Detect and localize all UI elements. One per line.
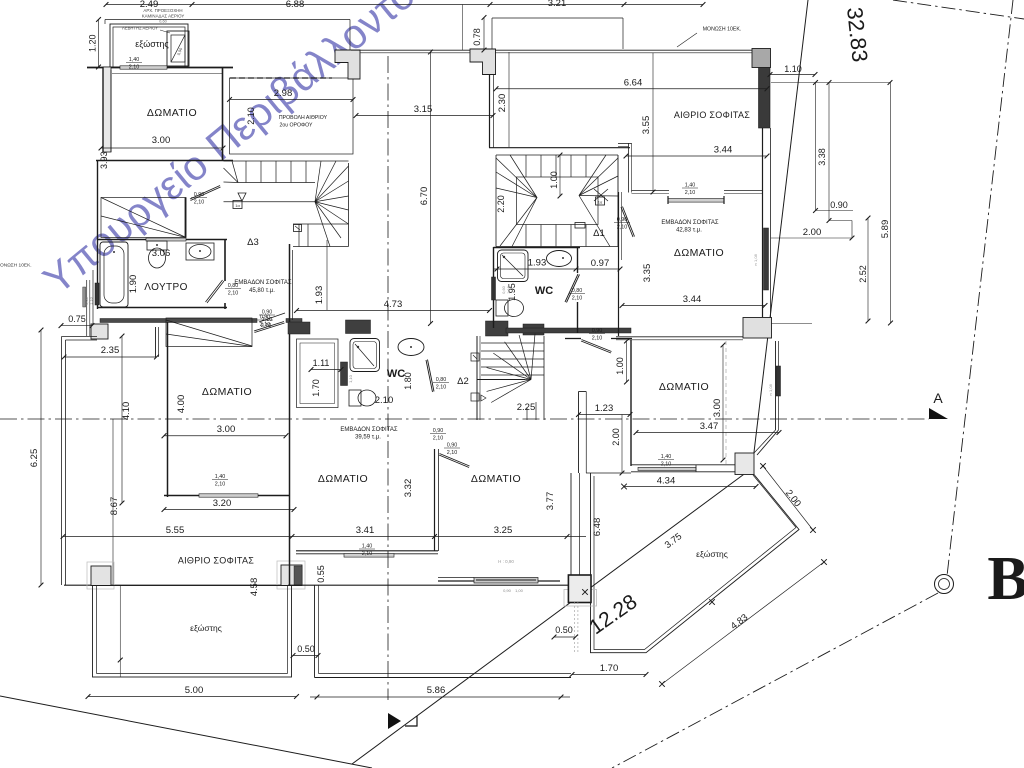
svg-text:2,10: 2,10	[436, 385, 447, 391]
dim 6.25	[40, 330, 42, 585]
stair D2	[476, 336, 478, 420]
svg-text:5.86: 5.86	[427, 685, 446, 696]
west wing top edge	[62, 336, 98, 338]
room2 bottom wall	[164, 495, 290, 497]
svg-text:39,59 τ.μ.: 39,59 τ.μ.	[355, 435, 381, 441]
svg-text:1,40: 1,40	[215, 474, 226, 480]
svg-text:0,90: 0,90	[194, 192, 205, 198]
svg-text:2.35: 2.35	[101, 345, 120, 356]
svg-text:ΑΡΧ. ΠΡΟΕΞΟΧΗΗ: ΑΡΧ. ΠΡΟΕΞΟΧΗΗ	[143, 8, 182, 13]
svg-text:0.78: 0.78	[472, 28, 482, 46]
svg-text:2,10: 2,10	[572, 296, 583, 302]
wall bottom of room1	[96, 160, 233, 162]
dim 4.83 diagonal	[662, 562, 824, 684]
svg-text:1α: 1α	[598, 200, 603, 205]
sloped ceiling hatch	[101, 198, 186, 238]
ceiling break line room6	[725, 341, 727, 464]
svg-text:6.48: 6.48	[592, 518, 603, 537]
dim 3.47	[636, 432, 779, 434]
gray lines below column BR	[573, 602, 575, 652]
window room3	[344, 554, 394, 558]
svg-text:4.10: 4.10	[121, 402, 132, 421]
svg-text:0,60: 0,60	[502, 286, 506, 293]
svg-text:5.00: 5.00	[185, 685, 204, 696]
svg-text:6.64: 6.64	[624, 78, 643, 89]
dim 1.20 left	[98, 20, 100, 68]
dim 3.38	[815, 83, 817, 211]
dim 5.86	[310, 696, 570, 698]
dim 2.35	[64, 356, 157, 358]
svg-text:Δ2: Δ2	[457, 376, 469, 387]
svg-text:2ου ΟΡΟΦΟΥ: 2ου ΟΡΟΦΟΥ	[279, 123, 313, 129]
dim 3.44 lower	[622, 305, 765, 307]
terrace bottom-mid	[314, 585, 316, 678]
svg-text:Η : 0,90: Η : 0,90	[498, 559, 514, 564]
right dim step	[829, 220, 852, 222]
door wc2	[426, 360, 433, 392]
svg-text:3.41: 3.41	[356, 525, 375, 536]
window bar closet	[341, 362, 348, 386]
wall right of hatch	[185, 198, 187, 238]
dim 0.50 mid	[293, 655, 318, 657]
east window bar lower	[776, 366, 781, 396]
wall y585 left wing	[64, 584, 302, 586]
svg-text:0,90: 0,90	[592, 328, 603, 334]
svg-text:1,10: 1,10	[348, 374, 353, 383]
svg-text:2,10: 2,10	[685, 190, 696, 196]
dim 3.00 room2	[164, 435, 286, 437]
dim row 1.93/0.97	[493, 268, 620, 270]
site boundary line SW (solid, shallow)	[0, 696, 372, 768]
wall right bathroom	[224, 239, 226, 281]
dim 3.20	[164, 509, 294, 511]
svg-text:3.00: 3.00	[217, 424, 236, 435]
top wall right section	[495, 49, 753, 51]
svg-text:3.21: 3.21	[548, 0, 567, 9]
section line A-A	[0, 418, 929, 420]
svg-text:1.11: 1.11	[313, 358, 330, 368]
top wall mid-right block	[470, 49, 496, 75]
dim 1.70	[572, 674, 646, 676]
dim 2.98	[230, 99, 354, 101]
door swing lower-left	[259, 313, 285, 322]
thick wall y320 left	[100, 319, 257, 323]
window room2 bottom	[199, 494, 258, 497]
wc room walls	[494, 247, 581, 249]
svg-text:2.10: 2.10	[375, 395, 394, 406]
room2 left wall	[167, 322, 169, 497]
thick wall y320 right stub	[286, 319, 302, 323]
dim 3.44 upper	[626, 155, 767, 157]
window top bathroom	[146, 238, 186, 241]
svg-text:0.55: 0.55	[316, 565, 326, 583]
svg-text:1,40: 1,40	[661, 454, 672, 460]
stair D3	[224, 160, 349, 162]
svg-text:3.55: 3.55	[641, 116, 652, 135]
stair D1	[495, 155, 497, 247]
wall after window	[724, 190, 763, 192]
svg-text:1.23: 1.23	[595, 403, 614, 414]
svg-text:4.58: 4.58	[249, 578, 260, 597]
wall y585 mid	[288, 584, 571, 586]
svg-text:3.25: 3.25	[494, 525, 513, 536]
top-right roof box	[492, 17, 623, 19]
dim 2.52	[867, 218, 869, 321]
svg-text:2.25: 2.25	[517, 402, 536, 413]
toilet wc2	[349, 390, 361, 406]
balcony left wall	[578, 392, 580, 474]
svg-text:2,10: 2,10	[362, 551, 373, 557]
svg-text:3.47: 3.47	[700, 421, 719, 432]
roof projection outline	[105, 19, 350, 21]
window bar outer west wall	[83, 287, 86, 307]
svg-text:ΜΟΝΩΣΗ 10ΕΚ.: ΜΟΝΩΣΗ 10ΕΚ.	[703, 27, 742, 33]
svg-text:2.52: 2.52	[858, 265, 868, 283]
svg-text:2.00: 2.00	[803, 227, 822, 238]
dim 4.73	[297, 310, 490, 312]
svg-text:1,10: 1,10	[90, 297, 94, 304]
svg-text:ΕΜΒΑΔΟΝ ΣΟΦΙΤΑΣ: ΕΜΒΑΔΟΝ ΣΟΦΙΤΑΣ	[661, 220, 719, 226]
west outer wall	[61, 337, 63, 586]
svg-text:ΛΕΒΗΤΗΣ ΑΕΡΙΟΥ: ΛΕΒΗΤΗΣ ΑΕΡΙΟΥ	[122, 26, 158, 31]
grid line vertical	[387, 56, 389, 700]
room6 west wall	[630, 340, 632, 466]
sink bath	[186, 243, 214, 260]
stair D2 symbol a	[471, 353, 479, 361]
svg-text:1.93: 1.93	[314, 286, 325, 305]
east window bar	[764, 228, 769, 290]
bathtub	[100, 242, 128, 307]
room5 west wall	[618, 192, 620, 336]
svg-text:1.20: 1.20	[88, 34, 98, 52]
wall room3/room4	[434, 449, 436, 551]
room6 bottom wall b	[696, 464, 736, 466]
svg-text:6.25: 6.25	[29, 449, 40, 468]
road boundary dash-dot right	[947, 0, 1013, 576]
svg-text:0,90: 0,90	[433, 428, 444, 434]
svg-text:ΕΜΒΑΔΟΝ ΣΟΦΙΤΑΣ: ΕΜΒΑΔΟΝ ΣΟΦΙΤΑΣ	[340, 427, 398, 433]
svg-text:3.15: 3.15	[414, 104, 433, 115]
svg-text:εξώστης: εξώστης	[190, 623, 222, 633]
svg-text:2.20: 2.20	[496, 195, 506, 213]
dim 2.00 diagonal	[763, 466, 813, 530]
atrium inner wall vertical	[628, 143, 630, 193]
svg-text:1,40: 1,40	[685, 183, 696, 189]
closet	[297, 339, 339, 408]
svg-text:ΑΙΘΡΙΟ ΣΟΦΙΤΑΣ: ΑΙΘΡΙΟ ΣΟΦΙΤΑΣ	[178, 556, 254, 566]
atrium projection box	[230, 78, 354, 154]
room6 se corner wall	[757, 430, 779, 455]
svg-text:ΑΙΘΡΙΟ ΣΟΦΙΤΑΣ: ΑΙΘΡΙΟ ΣΟΦΙΤΑΣ	[674, 110, 750, 120]
svg-text:π 1,08: π 1,08	[768, 383, 773, 395]
door wc	[565, 274, 578, 302]
atrium inner wall horizontal	[632, 190, 670, 192]
dark wall y330 wc	[506, 328, 631, 333]
door swing room2 top	[254, 322, 284, 332]
svg-text:2,10: 2,10	[194, 200, 205, 206]
svg-text:ΔΩΜΑΤΙΟ: ΔΩΜΑΤΙΟ	[674, 247, 724, 259]
svg-text:2,10: 2,10	[447, 450, 458, 456]
svg-text:2,10: 2,10	[260, 322, 271, 328]
room4 bottom wall	[438, 580, 560, 582]
top wall mid-left block	[335, 50, 360, 79]
svg-text:3.06: 3.06	[152, 248, 171, 259]
svg-text:ΠΡΟΒΟΛΗ ΑΙΘΡΙΟΥ: ΠΡΟΒΟΛΗ ΑΙΘΡΙΟΥ	[279, 115, 328, 121]
svg-text:2,10: 2,10	[592, 336, 603, 342]
dim 1.11	[311, 369, 341, 371]
svg-text:Δ1: Δ1	[593, 228, 605, 239]
section arrow A bottom	[388, 713, 401, 729]
svg-text:A: A	[933, 390, 943, 406]
dim 3.00 room1	[101, 147, 223, 149]
svg-text:0,60: 0,60	[159, 20, 166, 24]
dim 6.64	[496, 88, 767, 90]
svg-text:ΛΟΥΤΡΟ: ΛΟΥΤΡΟ	[144, 282, 188, 293]
dim 2.00 right	[771, 237, 852, 239]
balcony top-left railing	[110, 24, 188, 67]
svg-text:1.70: 1.70	[311, 379, 321, 397]
wall bottom bathroom	[97, 307, 227, 309]
stair D3 box symbol b	[294, 225, 302, 232]
dim 0.50 bottom-right	[554, 636, 576, 638]
svg-text:εξώστης: εξώστης	[135, 39, 169, 49]
dark wall stub a	[288, 322, 310, 334]
dim 1.00 room6	[626, 341, 628, 382]
shower	[350, 339, 380, 372]
svg-text:1.80: 1.80	[403, 372, 413, 390]
east wall	[762, 128, 764, 317]
svg-text:3.00: 3.00	[712, 399, 723, 418]
svg-text:1.10: 1.10	[784, 64, 802, 74]
ne corner block	[752, 49, 771, 68]
dim 4.10	[121, 336, 123, 503]
svg-text:1,40: 1,40	[362, 544, 373, 550]
svg-text:4.34: 4.34	[657, 476, 676, 487]
stair D1 box symbol	[596, 197, 605, 205]
svg-text:2.00: 2.00	[611, 428, 621, 446]
window sill right room	[668, 199, 724, 203]
road boundary dash-dot lower right	[612, 593, 938, 768]
boiler box	[167, 31, 189, 66]
svg-text:3.00: 3.00	[152, 135, 171, 146]
svg-text:ΕΜΒΑΔΟΝ ΣΟΦΙΤΑΣ: ΕΜΒΑΔΟΝ ΣΟΦΙΤΑΣ	[234, 280, 292, 286]
svg-text:2.98: 2.98	[274, 88, 293, 99]
svg-text:ΟΝΩΣΗ 10ΕΚ.: ΟΝΩΣΗ 10ΕΚ.	[0, 263, 32, 269]
svg-text:ΔΩΜΑΤΙΟ: ΔΩΜΑΤΙΟ	[471, 473, 521, 485]
svg-text:3.44: 3.44	[714, 145, 733, 156]
wall top of room1	[87, 67, 233, 69]
right dims top line	[771, 82, 890, 84]
column balcony corner	[735, 453, 754, 475]
door room4	[439, 455, 469, 468]
svg-text:2.30: 2.30	[497, 94, 508, 113]
balcony bottom-left railing	[93, 586, 292, 678]
door leaf hatch-hall	[190, 186, 220, 200]
stair D1 box symbol b	[575, 223, 585, 229]
dim 5.00	[88, 696, 297, 698]
svg-text:B: B	[987, 545, 1024, 613]
svg-text:0,60: 0,60	[85, 297, 89, 304]
room5 bottom wall	[616, 336, 743, 338]
window bar wc	[492, 277, 496, 300]
dim 1.00 stair	[559, 155, 561, 196]
svg-text:0.50: 0.50	[555, 625, 573, 635]
column balcony right	[277, 561, 305, 589]
svg-text:45,80 τ.μ.: 45,80 τ.μ.	[249, 288, 275, 294]
wall below block	[489, 75, 491, 148]
svg-text:0,90: 0,90	[260, 315, 271, 321]
svg-text:3.44: 3.44	[683, 294, 702, 305]
svg-text:6.70: 6.70	[419, 187, 430, 206]
site boundary line 32.83 (solid, NE)	[752, 0, 808, 469]
svg-text:1,00: 1,00	[515, 588, 524, 593]
svg-text:6.88: 6.88	[286, 0, 305, 10]
svg-text:3.77: 3.77	[545, 492, 556, 511]
room3 bottom wall	[296, 550, 438, 552]
shower wc	[498, 250, 529, 282]
window bar left wall	[95, 283, 99, 305]
svg-text:2,10: 2,10	[215, 482, 226, 488]
svg-text:3.32: 3.32	[403, 479, 414, 498]
wall top bathroom	[97, 239, 227, 241]
room6 bottom wall	[631, 464, 696, 466]
svg-text:8.67: 8.67	[109, 497, 120, 516]
svg-text:1.00: 1.00	[615, 357, 625, 375]
wall left mid	[97, 160, 99, 309]
svg-text:2,10: 2,10	[661, 462, 672, 468]
window room4	[474, 578, 538, 584]
dim row 5.55/3.41/3.25	[63, 536, 586, 538]
column balcony BR	[564, 590, 597, 607]
window room6	[638, 467, 696, 470]
toilet bath	[147, 241, 167, 250]
svg-text:2,10: 2,10	[129, 65, 140, 71]
svg-text:1,10: 1,10	[507, 286, 511, 293]
svg-text:ΔΩΜΑΤΙΟ: ΔΩΜΑΤΙΟ	[659, 381, 709, 393]
svg-text:2.10: 2.10	[246, 107, 256, 125]
room2 hatch	[166, 318, 252, 347]
wall top bottom-right	[565, 338, 581, 340]
corner block SE upper	[743, 318, 772, 339]
column top-left wing	[91, 324, 108, 339]
dim 1.23	[579, 414, 631, 416]
wall stub left of room2	[155, 327, 157, 357]
dim 1.10	[770, 74, 815, 76]
door leaf bathroom	[207, 281, 224, 303]
svg-text:1,40: 1,40	[129, 57, 140, 63]
dark wall stub b	[346, 320, 371, 334]
door bottom-right top	[581, 341, 611, 353]
wall right of room1	[222, 67, 224, 161]
dim 0.78	[483, 18, 485, 51]
sink wc2	[398, 339, 424, 356]
section arrow A right	[929, 408, 948, 419]
svg-text:1.70: 1.70	[600, 663, 619, 674]
svg-text:3.20: 3.20	[213, 498, 232, 509]
dim 3.00 room6	[722, 345, 724, 460]
svg-text:1.90: 1.90	[128, 275, 139, 294]
svg-text:2,10: 2,10	[228, 291, 239, 297]
mid west wall	[289, 244, 291, 585]
dim 0.75	[61, 325, 92, 327]
balcony top edge	[586, 472, 631, 474]
dim 0.90 right	[816, 210, 854, 212]
dim 6.70	[430, 52, 432, 324]
svg-text:ΔΩΜΑΤΙΟ: ΔΩΜΑΤΙΟ	[202, 386, 252, 398]
svg-text:2,10: 2,10	[433, 436, 444, 442]
east wall upper	[759, 68, 771, 129]
svg-text:0,80: 0,80	[572, 288, 583, 294]
room6 east wall	[775, 341, 777, 430]
top dim row	[106, 4, 703, 6]
svg-text:0.90: 0.90	[830, 200, 848, 210]
ext line balcony bl	[119, 585, 121, 677]
svg-text:1α: 1α	[235, 203, 240, 208]
svg-text:3.38: 3.38	[817, 148, 827, 166]
dark wall stub c	[486, 321, 509, 336]
stair D1 X mark	[594, 189, 608, 201]
svg-text:0,80: 0,80	[436, 377, 447, 383]
svg-text:3.35: 3.35	[642, 264, 653, 283]
svg-text:ΔΩΜΑΤΙΟ: ΔΩΜΑΤΙΟ	[147, 107, 197, 119]
top wall mid	[351, 49, 471, 51]
svg-text:1.00: 1.00	[549, 171, 559, 189]
atrium inner wall top	[618, 143, 632, 145]
svg-text:0.75: 0.75	[68, 314, 86, 324]
svg-text:0,90: 0,90	[503, 588, 512, 593]
dim 5.89	[890, 83, 892, 324]
svg-text:0.50: 0.50	[297, 644, 315, 654]
svg-text:Δ3: Δ3	[247, 237, 259, 248]
stair D2 symbol b	[471, 393, 479, 401]
svg-text:εξώστης: εξώστης	[696, 549, 728, 559]
site boundary line 12.28 (solid, SE diagonal)	[352, 469, 751, 764]
dim 2.00 room6	[621, 415, 623, 474]
wall top stair D1	[489, 147, 630, 149]
dim 3.15	[356, 115, 493, 117]
stair D1 wall right	[617, 155, 619, 247]
survey point B circle	[935, 575, 954, 594]
svg-text:ΚΑΜΙΝΑΔΑΣ ΑΕΡΙΟΥ: ΚΑΜΙΝΑΔΑΣ ΑΕΡΙΟΥ	[142, 14, 185, 19]
wall left of room1	[103, 67, 111, 152]
svg-text:π 1,08: π 1,08	[753, 253, 758, 265]
column balcony left	[87, 562, 114, 589]
svg-text:WC: WC	[535, 285, 553, 297]
svg-text:0.97: 0.97	[591, 258, 610, 269]
stair D3 arrow	[238, 193, 246, 201]
balcony BR railing	[591, 473, 800, 653]
svg-text:ΔΩΜΑΤΙΟ: ΔΩΜΑΤΙΟ	[318, 473, 368, 485]
svg-text:4.73: 4.73	[384, 299, 403, 310]
svg-text:5.55: 5.55	[166, 525, 185, 536]
svg-text:5.89: 5.89	[880, 220, 891, 239]
svg-text:4.00: 4.00	[176, 395, 187, 414]
door D1	[621, 207, 633, 237]
svg-text:42,83 τ.μ.: 42,83 τ.μ.	[676, 228, 702, 234]
right dims bottom stub	[771, 323, 812, 325]
svg-text:1.93: 1.93	[528, 258, 547, 269]
svg-text:3.93: 3.93	[99, 151, 109, 169]
dim 4.34	[624, 486, 756, 488]
window in top wall room1	[120, 66, 167, 69]
dark wall stub d	[523, 324, 544, 335]
toilet wc	[496, 300, 508, 316]
sink wc	[547, 251, 572, 267]
road boundary dash-dot top right	[893, 0, 1024, 19]
stair D3 box symbol	[233, 201, 242, 209]
svg-text:0,90: 0,90	[447, 443, 458, 449]
